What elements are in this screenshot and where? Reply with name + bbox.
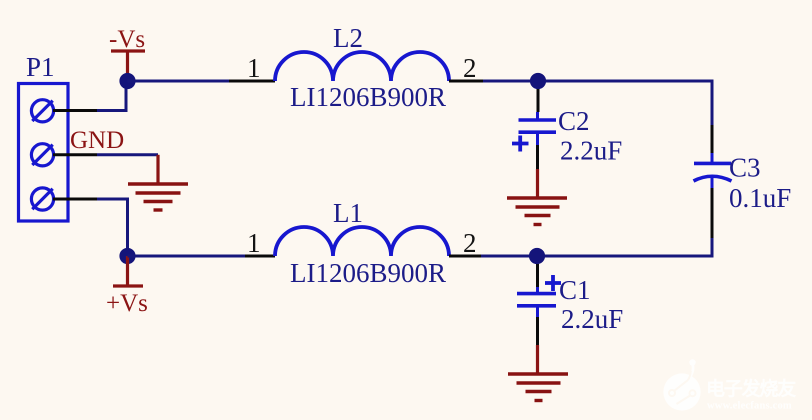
wire top-right corner to C3 (711, 125, 714, 153)
svg-text:2.2uF: 2.2uF (560, 136, 622, 166)
svg-text:1: 1 (247, 228, 261, 258)
L2 pin 2 stub (449, 80, 483, 83)
svg-text:C2: C2 (558, 106, 590, 136)
junction node +Vs (119, 248, 135, 264)
svg-text:LI1206B900R: LI1206B900R (290, 82, 446, 112)
watermark logo (663, 359, 700, 410)
ground symbol below C1 (508, 374, 568, 401)
C1 pin 1 wire (536, 264, 539, 287)
wire pin3 to +Vs node (97, 199, 128, 256)
wire L2 pin2 to top-right corner (483, 81, 712, 125)
wire C3 to bottom rail (481, 238, 712, 256)
capacitor C1 (517, 275, 561, 317)
junction node C2 top (530, 73, 546, 89)
C1 pin 2 wire (536, 317, 539, 345)
C2 pin 2 wire (536, 145, 539, 169)
connector P1 body (19, 84, 69, 222)
C3 pin 2 wire (711, 188, 714, 238)
inductor L1 (275, 227, 449, 256)
wire pin1 to -Vs node (97, 81, 126, 111)
watermark text (706, 377, 796, 412)
svg-text:电子发烧友: 电子发烧友 (706, 377, 796, 400)
L2 pin 1 stub (229, 80, 275, 83)
svg-text:2: 2 (463, 228, 477, 258)
capacitor C3 (694, 153, 732, 188)
svg-text:L2: L2 (333, 23, 363, 53)
svg-text:C3: C3 (729, 153, 761, 183)
svg-text:2.2uF: 2.2uF (561, 304, 623, 334)
ground symbol below C2 (507, 198, 567, 225)
svg-text:www.elecfans.com: www.elecfans.com (707, 401, 792, 412)
capacitor C2 (512, 112, 556, 152)
wire pin2 to GND port (97, 153, 158, 156)
wire C1 to ground (536, 345, 539, 373)
wire C2 to ground (536, 169, 539, 197)
L1 pin 2 stub (449, 255, 481, 258)
P1 pin 3 wire (53, 198, 97, 201)
svg-text:+Vs: +Vs (106, 290, 148, 317)
power port -Vs (111, 51, 145, 81)
wire -Vs node to L2 pin1 (128, 80, 230, 83)
svg-text:LI1206B900R: LI1206B900R (290, 258, 446, 288)
junction node -Vs (119, 73, 135, 89)
svg-text:L1: L1 (333, 198, 363, 228)
C2 pin 1 wire (537, 89, 540, 112)
wire +Vs node to L1 pin1 (128, 255, 246, 258)
svg-text:1: 1 (247, 53, 261, 83)
power port GND drop wire (156, 155, 159, 183)
ground symbol GND (128, 184, 188, 210)
P1 pin 2 wire (53, 153, 97, 156)
P1 pin 1 wire (53, 109, 97, 112)
L1 pin 1 stub (245, 255, 275, 258)
power port +Vs (113, 256, 143, 286)
svg-text:P1: P1 (26, 52, 55, 82)
svg-text:0.1uF: 0.1uF (729, 183, 791, 213)
junction node C1 top (529, 248, 545, 264)
svg-text:-Vs: -Vs (109, 26, 145, 53)
svg-text:2: 2 (463, 53, 477, 83)
svg-text:C1: C1 (559, 275, 591, 305)
inductor L2 (275, 52, 449, 81)
svg-text:GND: GND (70, 127, 124, 154)
